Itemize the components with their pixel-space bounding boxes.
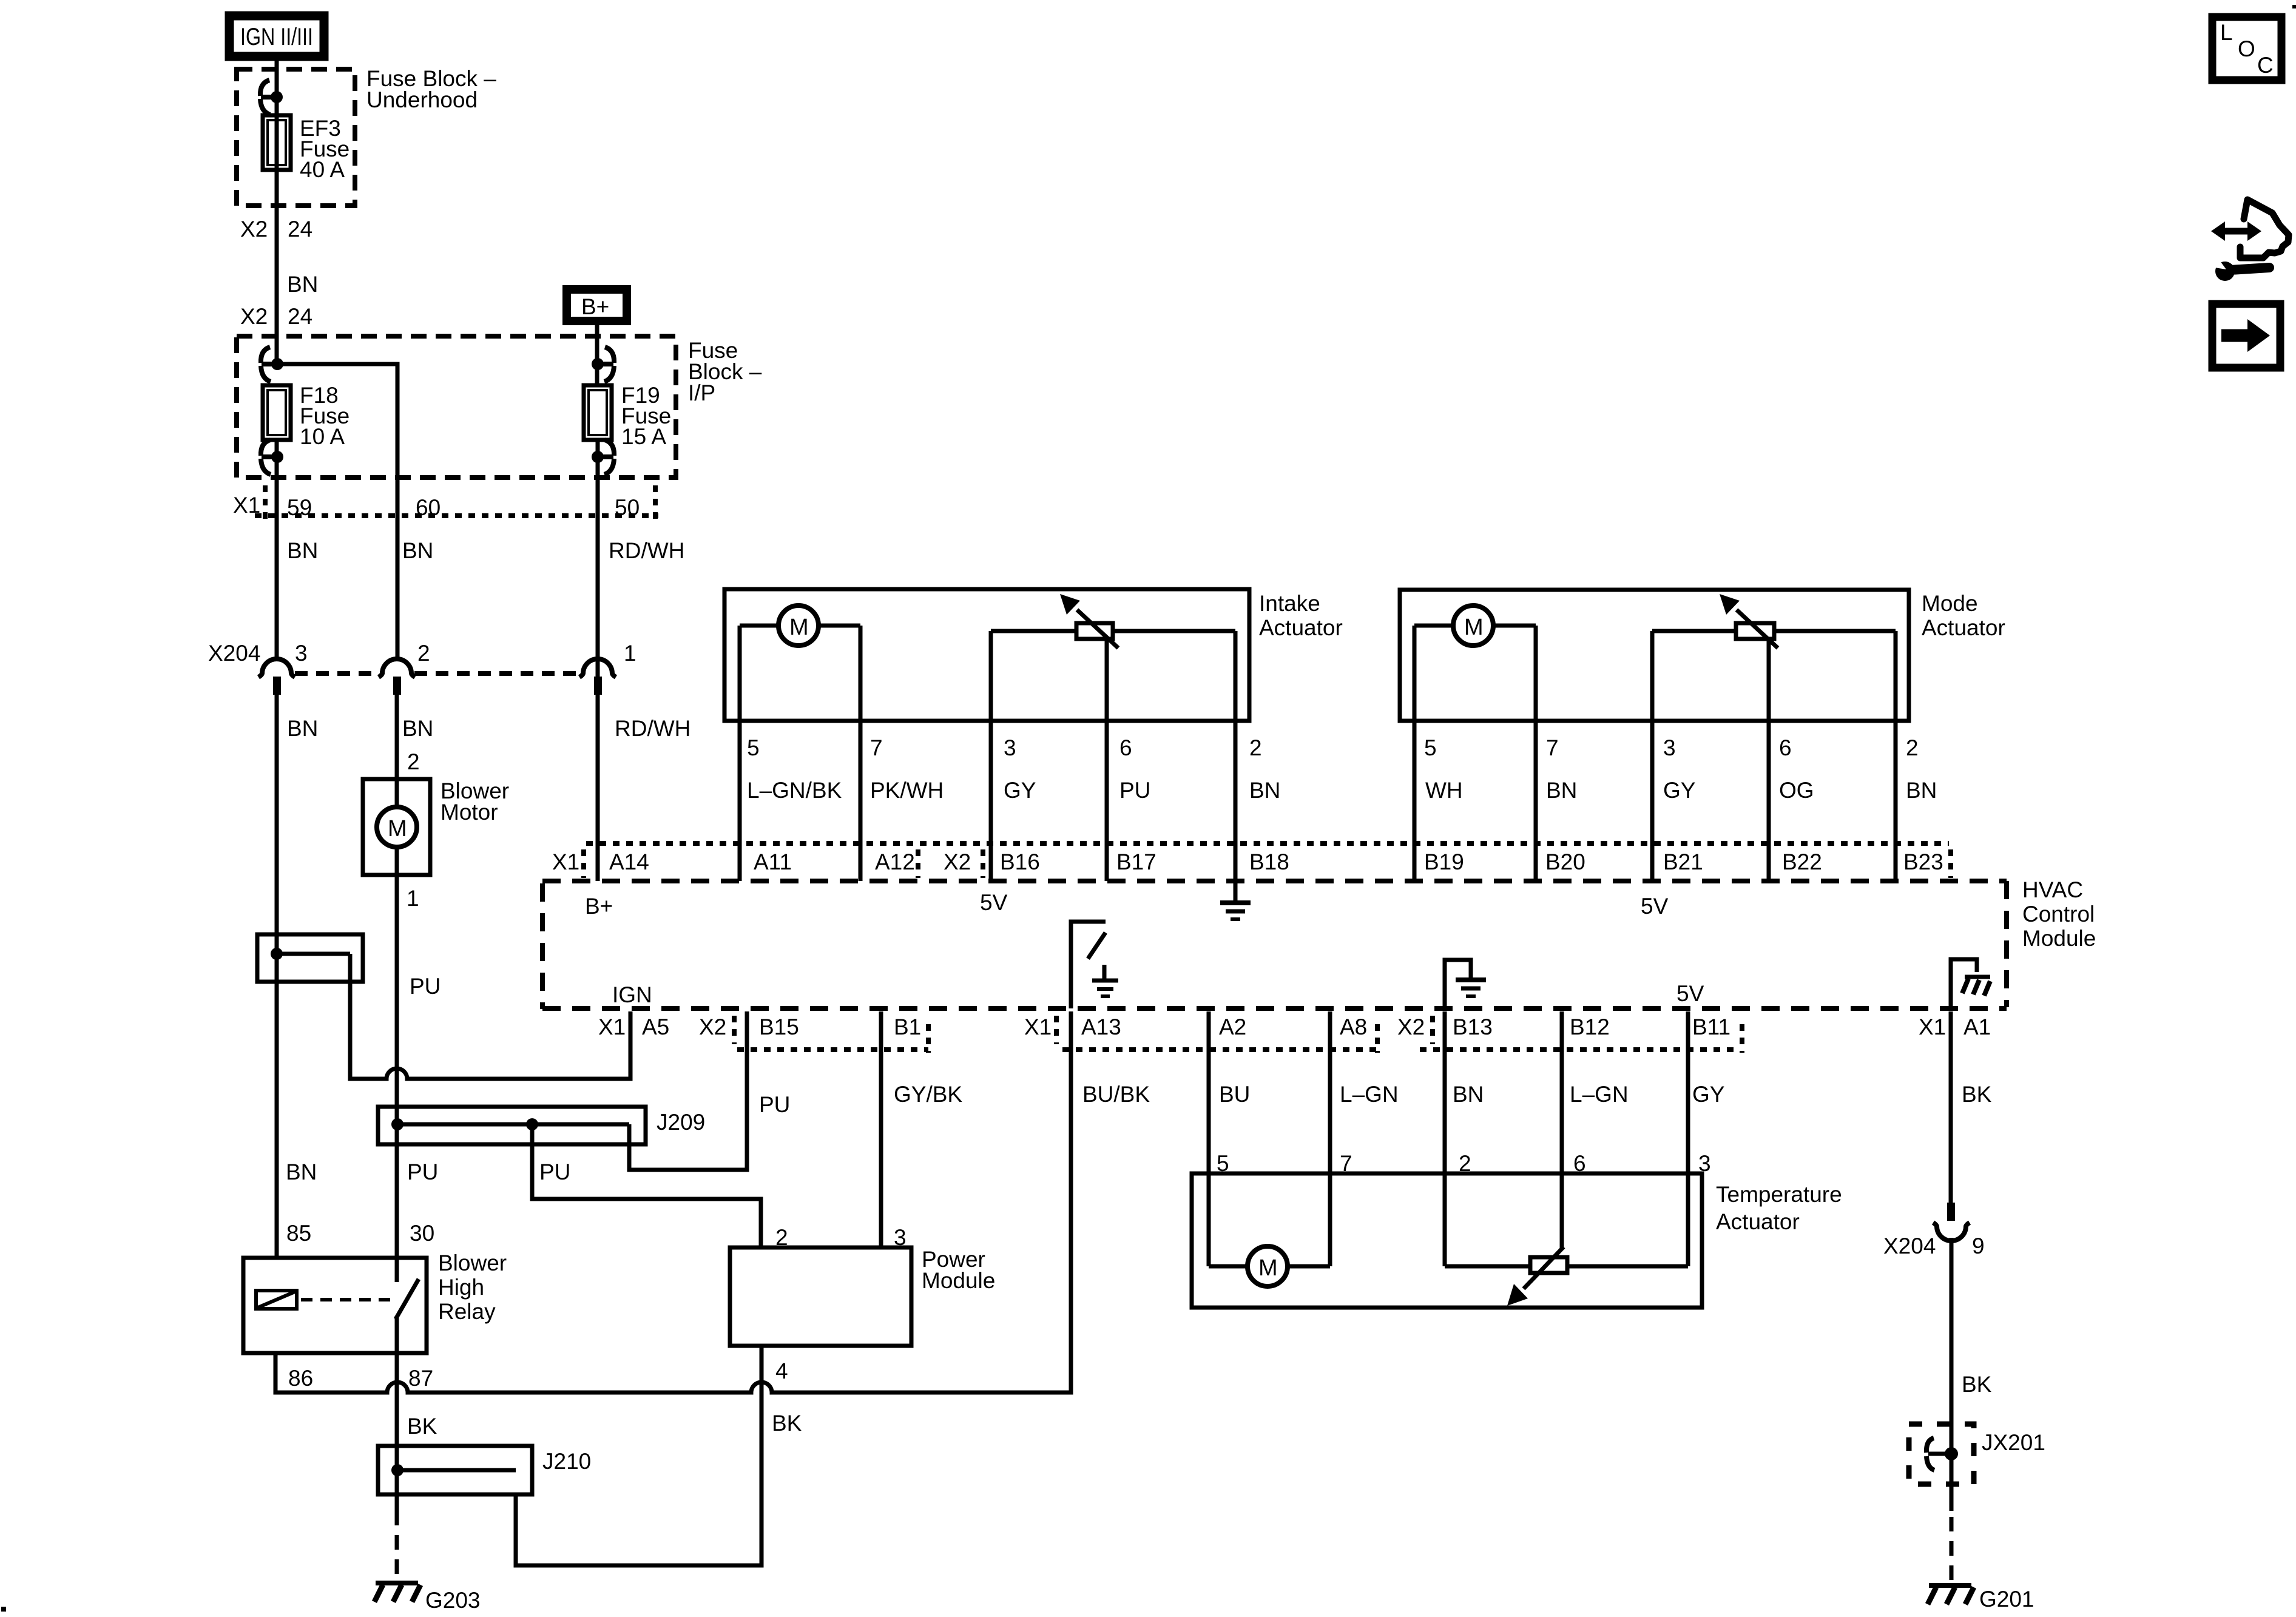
wire F19 down to module A14 (596, 440, 600, 881)
node junction dot EF3 top (271, 91, 283, 103)
svg-text:High: High (438, 1275, 484, 1300)
pin labels 85 30 (286, 1221, 434, 1246)
wire A2 to temp pin5 (1207, 1011, 1211, 1266)
splice J209 (378, 1107, 705, 1144)
wire B11 to temp pin3 (1686, 1011, 1690, 1266)
svg-text:RD/WH: RD/WH (615, 716, 690, 741)
svg-text:2: 2 (775, 1225, 788, 1250)
svg-text:BK: BK (772, 1411, 802, 1436)
pin label X2 24 upper (240, 217, 312, 241)
svg-text:I/P: I/P (688, 380, 715, 405)
svg-text:Module: Module (922, 1268, 995, 1293)
fuse EF3 40A (263, 115, 349, 182)
svg-text:15 A: 15 A (621, 424, 666, 449)
wire mode pin2 (1894, 631, 1898, 881)
svg-text:B15: B15 (759, 1014, 799, 1039)
motor M intake (740, 606, 860, 646)
svg-text:RD/WH: RD/WH (609, 538, 684, 563)
potentiometer temperature (1445, 1247, 1688, 1306)
splice JX201 (1909, 1424, 2045, 1511)
svg-text:GY/BK: GY/BK (894, 1082, 962, 1107)
svg-text:X1: X1 (1919, 1014, 1946, 1039)
svg-text:2: 2 (407, 749, 420, 774)
pin number labels temperature actuator (1217, 1151, 1711, 1176)
wire mode pin7 (1534, 626, 1538, 881)
node B+ supply tag (567, 289, 627, 321)
wire X204-2 BN down to blower motor (395, 693, 399, 779)
svg-text:BN: BN (1546, 778, 1577, 803)
svg-text:Actuator: Actuator (1922, 615, 2005, 640)
connector terminal at EF3 top (260, 80, 277, 115)
wire IGN feed into underhood fuse block (275, 56, 279, 364)
svg-text:Module: Module (2022, 926, 2096, 951)
svg-text:50: 50 (615, 495, 640, 520)
switch internal at A13 (1071, 922, 1118, 1008)
wire intake pin7 (859, 626, 863, 881)
svg-text:30: 30 (410, 1221, 434, 1246)
svg-text:GY: GY (1663, 778, 1695, 803)
svg-text:A14: A14 (609, 849, 649, 874)
svg-text:5V: 5V (980, 890, 1008, 915)
wire dashed to G201 (1950, 1517, 1954, 1581)
wire power module pin3 to HVAC B1 (879, 1011, 883, 1247)
pin labels 2 3 power module (775, 1225, 907, 1250)
HVAC control module outline (542, 881, 2007, 1009)
fuse block underhood dashed box (237, 69, 355, 206)
svg-text:BN: BN (287, 716, 318, 741)
connector terminal F19 top (598, 347, 614, 382)
pin labels 86 87 (288, 1366, 433, 1391)
node IGN II/III supply tag (229, 16, 324, 56)
svg-text:6: 6 (1779, 735, 1792, 760)
svg-text:A8: A8 (1340, 1014, 1367, 1039)
wire B12 to temp pin6 wiper (1560, 1011, 1564, 1250)
svg-text:PU: PU (410, 974, 441, 999)
svg-text:X1: X1 (233, 493, 260, 518)
svg-text:J209: J209 (657, 1110, 705, 1135)
wire X204-1 RD/WH down to HVAC A14 (596, 693, 600, 881)
wire intake pin2 (1234, 631, 1238, 881)
svg-text:1: 1 (407, 886, 419, 911)
fuse F18 10A (263, 383, 349, 449)
svg-text:WH: WH (1425, 778, 1463, 803)
svg-text:J210: J210 (542, 1449, 591, 1474)
pin label X1 A1 (1919, 1014, 1991, 1039)
svg-text:OG: OG (1779, 778, 1814, 803)
wire X204-3 BN down to relay 85 (275, 693, 279, 1258)
svg-text:BN: BN (287, 272, 318, 297)
svg-text:BK: BK (1962, 1372, 1992, 1397)
svg-text:Actuator: Actuator (1716, 1209, 1800, 1234)
pin 4 label and BK (772, 1359, 802, 1436)
wire J209 to HVAC B15 (629, 1011, 747, 1170)
svg-text:X2: X2 (699, 1014, 726, 1039)
motor M mode (1414, 606, 1536, 646)
svg-text:GY: GY (1004, 778, 1036, 803)
svg-text:BK: BK (407, 1414, 437, 1439)
svg-text:BN: BN (287, 538, 318, 563)
svg-text:B21: B21 (1663, 849, 1703, 874)
label Fuse Block Underhood (366, 66, 496, 112)
svg-text:M: M (1258, 1255, 1278, 1281)
wire labels BN PU PU row (286, 1160, 570, 1184)
svg-text:7: 7 (1546, 735, 1559, 760)
svg-text:IGN: IGN (612, 982, 652, 1007)
svg-text:A5: A5 (642, 1014, 669, 1039)
svg-text:BN: BN (286, 1160, 317, 1184)
svg-text:X2: X2 (944, 849, 971, 874)
svg-text:2: 2 (417, 641, 430, 666)
svg-text:PU: PU (407, 1160, 438, 1184)
svg-text:L–GN/BK: L–GN/BK (747, 778, 842, 803)
svg-text:BN: BN (1249, 778, 1280, 803)
svg-text:A2: A2 (1219, 1014, 1246, 1039)
svg-text:B1: B1 (894, 1014, 921, 1039)
svg-text:Intake: Intake (1259, 591, 1320, 616)
wire intake pin3 (989, 631, 993, 881)
connector X1 row of I/P fuse block (233, 485, 658, 523)
svg-text:A1: A1 (1963, 1014, 1991, 1039)
label LOC legend box (2212, 17, 2281, 80)
svg-text:X2: X2 (240, 304, 268, 329)
wire branch F18 top to 60 feed (277, 364, 397, 661)
svg-text:L: L (2220, 20, 2233, 45)
connector terminal F19 bottom (598, 440, 614, 474)
wire dashed to G203 (395, 1511, 399, 1578)
svg-text:BK: BK (1962, 1082, 1992, 1107)
svg-text:M: M (1464, 615, 1484, 640)
svg-text:G203: G203 (425, 1588, 481, 1613)
svg-text:2: 2 (1906, 735, 1919, 760)
ground G201 (1928, 1585, 2034, 1612)
relay K blower high (243, 1251, 507, 1353)
wire mode pin5 (1413, 626, 1417, 881)
svg-text:B20: B20 (1545, 849, 1585, 874)
wire color labels below X204 (287, 716, 690, 741)
motor M temperature (1209, 1246, 1330, 1286)
svg-text:5: 5 (747, 735, 760, 760)
svg-text:B12: B12 (1570, 1014, 1610, 1039)
wire mode pin3 (1650, 631, 1655, 881)
node junction dot F19 bottom (592, 451, 604, 463)
wire IGN tap to HVAC A5 with hop over blower wire (350, 954, 630, 1079)
svg-text:Mode: Mode (1922, 591, 1978, 616)
connector terminal F18 top (261, 347, 277, 382)
node junction dot F18 bottom (271, 451, 283, 463)
svg-text:24: 24 (288, 217, 312, 241)
svg-text:X1: X1 (552, 849, 579, 874)
svg-text:7: 7 (870, 735, 883, 760)
wire intake pin6 wiper (1105, 637, 1109, 881)
node junction dot F18 top (271, 358, 283, 370)
svg-text:C: C (2257, 53, 2274, 78)
potentiometer mode (1652, 594, 1896, 648)
svg-text:86: 86 (288, 1366, 313, 1391)
svg-text:40 A: 40 A (300, 157, 345, 182)
svg-text:PK/WH: PK/WH (870, 778, 944, 803)
svg-text:X1: X1 (598, 1014, 626, 1039)
svg-text:A13: A13 (1081, 1014, 1121, 1039)
connector terminal F18 bottom (261, 440, 277, 474)
svg-text:Motor: Motor (441, 800, 498, 825)
svg-text:5V: 5V (1676, 981, 1704, 1006)
svg-text:A11: A11 (754, 849, 792, 874)
stray mark top right (2292, 5, 2296, 8)
pin label X2 24 lower (240, 304, 312, 329)
svg-text:O: O (2238, 36, 2255, 61)
wire J209 to power module pin2 (532, 1124, 761, 1247)
svg-text:87: 87 (408, 1366, 433, 1391)
svg-text:4: 4 (775, 1359, 788, 1383)
svg-text:B19: B19 (1424, 849, 1464, 874)
svg-text:X2: X2 (240, 217, 268, 241)
svg-text:9: 9 (1972, 1234, 1985, 1258)
fuse F19 15A (584, 383, 671, 449)
svg-text:2: 2 (1249, 735, 1262, 760)
svg-text:BU/BK: BU/BK (1082, 1082, 1150, 1107)
temperature actuator box (1192, 1173, 1842, 1308)
ground internal at B18 (1220, 881, 1251, 919)
wire relay 87 BK down to J210 and G203 (395, 1353, 399, 1511)
wire blower PU down to relay 30 (395, 875, 399, 1258)
connector band bottom X1 A13 A2 A8 (1024, 1014, 1377, 1053)
mode actuator box (1400, 590, 2005, 721)
svg-text:3: 3 (1004, 735, 1016, 760)
label HVAC Control Module (2022, 877, 2096, 951)
svg-text:BU: BU (1219, 1082, 1250, 1107)
svg-text:Actuator: Actuator (1259, 615, 1343, 640)
wire A1 BK to X204-9 (1949, 1011, 1953, 1203)
svg-text:B+: B+ (581, 294, 609, 319)
svg-text:5V: 5V (1641, 894, 1669, 919)
svg-text:Temperature: Temperature (1716, 1182, 1842, 1207)
svg-text:3: 3 (295, 641, 308, 666)
potentiometer intake (991, 594, 1235, 648)
wire intake pin5 (738, 626, 742, 881)
svg-text:1: 1 (624, 641, 636, 666)
svg-text:3: 3 (1663, 735, 1676, 760)
svg-text:M: M (789, 615, 809, 640)
svg-text:X2: X2 (1397, 1014, 1425, 1039)
connector X204 row (208, 641, 636, 695)
svg-text:X1: X1 (1024, 1014, 1052, 1039)
svg-text:X204: X204 (1883, 1234, 1936, 1258)
svg-text:G201: G201 (1979, 1587, 2034, 1612)
svg-text:PU: PU (759, 1092, 790, 1117)
svg-text:Control: Control (2022, 902, 2095, 927)
svg-text:HVAC: HVAC (2022, 877, 2083, 902)
wire B+ to F19 (595, 321, 599, 385)
svg-text:PU: PU (539, 1160, 570, 1184)
wire BK to JX201 (1950, 1238, 1954, 1426)
connector band top X1/X2 (552, 843, 1951, 878)
svg-text:B+: B+ (585, 894, 613, 919)
ground G203 (374, 1583, 481, 1613)
svg-text:3: 3 (894, 1225, 907, 1250)
wire A8 to temp pin7 (1328, 1011, 1332, 1266)
wire power module pin4 BK to ground bus (516, 1346, 761, 1565)
svg-text:BN: BN (402, 538, 433, 563)
fuse block I/P dashed box (237, 336, 676, 478)
svg-text:PU: PU (1119, 778, 1150, 803)
pin number labels intake (747, 735, 1262, 760)
connector band bottom X2 B15 B1 (699, 1014, 928, 1053)
wire B13 to temp pin2 (1443, 1011, 1447, 1266)
svg-text:60: 60 (416, 495, 441, 520)
connector X204 pin 9 inline (1883, 1203, 1985, 1258)
svg-text:6: 6 (1119, 735, 1132, 760)
wire color labels BN BN RD/WH (287, 538, 684, 563)
svg-text:24: 24 (288, 304, 312, 329)
icon arrow box (2212, 304, 2280, 368)
svg-text:L–GN: L–GN (1340, 1082, 1399, 1107)
wire relay 86 to HVAC A13 with hops (275, 1011, 1071, 1393)
chassis ground internal at A1 (1951, 959, 1990, 1008)
svg-text:X204: X204 (208, 641, 260, 666)
label Fuse Block I/P (688, 338, 762, 405)
splice box on BN wire (257, 934, 363, 982)
svg-text:B22: B22 (1782, 849, 1822, 874)
svg-text:59: 59 (287, 495, 312, 520)
svg-text:Relay: Relay (438, 1299, 496, 1324)
wire mode pin6 wiper (1767, 637, 1771, 881)
stray mark bottom left (1, 1607, 6, 1612)
connector band bottom X2 B13 B12 B11 (1397, 1014, 1742, 1053)
wire color labels intake (747, 778, 1280, 803)
svg-text:L–GN: L–GN (1570, 1082, 1629, 1107)
ground internal at B13 (1445, 960, 1486, 1008)
svg-text:GY: GY (1692, 1082, 1724, 1107)
svg-text:B17: B17 (1116, 849, 1156, 874)
svg-text:IGN II/III: IGN II/III (240, 24, 313, 50)
icon adjustable component (arrow and wrench) (2211, 200, 2289, 281)
svg-text:BN: BN (1453, 1082, 1484, 1107)
svg-text:Blower: Blower (438, 1251, 507, 1275)
node junction dot F19 top (592, 358, 604, 370)
svg-text:Underhood: Underhood (366, 87, 478, 112)
power module (730, 1247, 995, 1346)
svg-text:JX201: JX201 (1982, 1430, 2045, 1455)
svg-text:5: 5 (1424, 735, 1437, 760)
svg-text:BN: BN (402, 716, 433, 741)
blower motor M1 (363, 778, 509, 875)
pin label X1 A5 (598, 1014, 669, 1039)
wire color labels under module (759, 1082, 1992, 1117)
svg-text:B23: B23 (1903, 849, 1943, 874)
svg-text:B18: B18 (1249, 849, 1289, 874)
wire F18 down to X204 (275, 440, 279, 661)
pin number labels mode (1424, 735, 1919, 760)
splice J210 (378, 1446, 591, 1494)
intake actuator box (724, 589, 1343, 721)
wire color labels mode (1425, 778, 1937, 803)
svg-text:B11: B11 (1692, 1014, 1730, 1039)
svg-text:B16: B16 (1000, 849, 1040, 874)
svg-text:BN: BN (1906, 778, 1937, 803)
svg-text:10 A: 10 A (300, 424, 345, 449)
svg-text:M: M (388, 816, 407, 842)
svg-text:85: 85 (286, 1221, 311, 1246)
svg-text:B13: B13 (1453, 1014, 1493, 1039)
svg-text:A12: A12 (875, 849, 915, 874)
